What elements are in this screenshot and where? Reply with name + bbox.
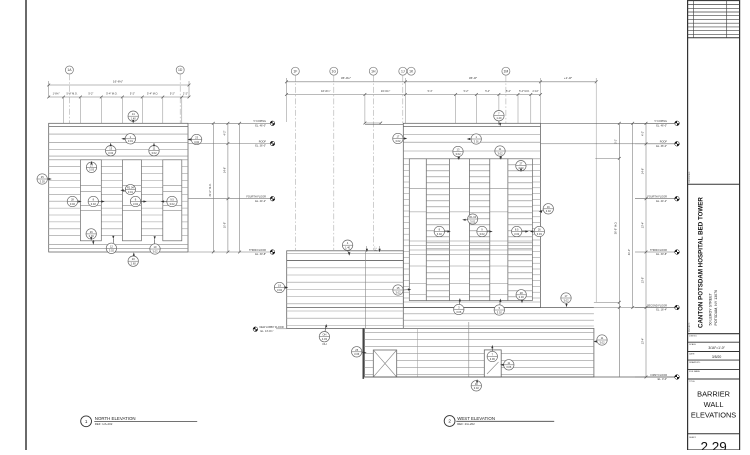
svg-text:1H: 1H: [371, 69, 376, 73]
svg-text:1: 1: [85, 419, 88, 424]
north bottom band lines: [49, 245, 188, 249]
svg-text:3.02: 3.02: [395, 139, 401, 143]
svg-text:ROOF: ROOF: [259, 140, 267, 143]
svg-text:OH: OH: [322, 342, 326, 346]
svg-text:3′-2″: 3′-2″: [615, 139, 618, 144]
title block outline: [688, 0, 740, 450]
north level marker T/ COPING: [189, 120, 275, 127]
north sub dimension chain: [47, 92, 190, 123]
svg-text:R1.04: R1.04: [127, 186, 134, 190]
callout 11/3.02 in blank strip: [594, 335, 608, 345]
svg-text:3/16″=1′-0″: 3/16″=1′-0″: [708, 346, 725, 350]
grid bubble 1G (west elev): [330, 67, 338, 250]
svg-text:4.03: 4.03: [322, 337, 328, 341]
svg-text:2′-10″: 2′-10″: [533, 90, 539, 93]
west window column 5: [490, 159, 508, 301]
callout 28/3.03 west inside low: [516, 290, 526, 304]
callout 4/1.40 wing top: [342, 240, 352, 256]
west window column 1: [409, 159, 426, 301]
west tower outline and coping: [403, 123, 540, 307]
west wing wall with siding: [287, 251, 404, 329]
west siding joint: [418, 322, 469, 377]
svg-text:4′-2″: 4′-2″: [223, 130, 226, 135]
north overall dimension 16'-6 1/2": [47, 80, 190, 97]
svg-text:FILE NAME:: FILE NAME:: [689, 370, 701, 373]
svg-text:10′-8″: 10′-8″: [223, 222, 226, 228]
svg-text:2: 2: [448, 419, 451, 424]
west tower margin siding: [403, 165, 540, 298]
svg-text:R1.04: R1.04: [469, 215, 476, 219]
callout 25/3.06 near jamb: [352, 347, 367, 357]
svg-text:REF: 2/A-202: REF: 2/A-202: [457, 422, 475, 426]
north level marker THIRD FLOOR: [189, 249, 275, 256]
north wall outline and coping: [49, 123, 188, 252]
west spandrel cluster lines: [409, 241, 532, 255]
svg-text:41′-0″: 41′-0″: [628, 249, 631, 255]
svg-text:5′-2″: 5′-2″: [464, 90, 469, 93]
svg-text:3.01: 3.01: [474, 139, 480, 143]
callout 18/3.04 west wing oh: [319, 324, 329, 346]
callout R1.04 west: [462, 214, 478, 224]
sheet title BARRIER WALL ELEVATIONS: [688, 381, 740, 434]
west right step lines: [594, 82, 621, 377]
west level marker FOURTH FLOOR: [635, 196, 679, 203]
svg-text:3.02: 3.02: [277, 288, 283, 292]
callout 11/3.06 door2 right: [500, 360, 514, 370]
svg-text:3.02: 3.02: [151, 151, 157, 155]
svg-text:NORTH ELEVATION: NORTH ELEVATION: [95, 416, 136, 421]
west sub dimension chain: [285, 89, 542, 96]
svg-text:1A: 1A: [67, 68, 72, 72]
svg-text:3.02: 3.02: [497, 310, 503, 314]
svg-text:1.40: 1.40: [496, 116, 502, 120]
svg-text:3.06: 3.06: [490, 357, 496, 361]
west overall dimension line: [285, 76, 597, 94]
svg-text:13′-4″: 13′-4″: [642, 222, 645, 228]
svg-text:CANTON POTSDAM HOSPITAL BED TO: CANTON POTSDAM HOSPITAL BED TOWER: [698, 197, 705, 328]
svg-text:EL. 30′-8″: EL. 30′-8″: [656, 253, 667, 256]
svg-text:1F: 1F: [293, 69, 297, 73]
callout 8/3.02 mid row b: [88, 196, 105, 206]
svg-text:5′-2″: 5′-2″: [88, 92, 93, 95]
wing corner dimension: [366, 246, 381, 252]
callout 1/3.01 west band: [467, 134, 482, 144]
west door 2: [484, 350, 501, 377]
svg-text:1.40: 1.40: [131, 117, 137, 121]
west elevation title: [444, 416, 554, 427]
svg-text:3/5/20: 3/5/20: [712, 355, 722, 359]
svg-text:EL. 13′-0¾″: EL. 13′-0¾″: [261, 330, 274, 333]
svg-text:FOURTH FLOOR: FOURTH FLOOR: [647, 196, 667, 199]
svg-text:3.02: 3.02: [152, 249, 158, 253]
svg-text:5′-4″: 5′-4″: [428, 90, 433, 93]
svg-text:3.06: 3.06: [456, 310, 462, 314]
svg-text:BARRIER: BARRIER: [697, 389, 730, 398]
revision table: [688, 0, 740, 38]
svg-text:T/ COPING: T/ COPING: [654, 120, 667, 123]
svg-text:FIRST FLOOR: FIRST FLOOR: [651, 374, 668, 377]
svg-text:36′-0⁄″: 36′-0⁄″: [469, 76, 477, 80]
svg-text:1′-8¾″: 1′-8¾″: [53, 92, 60, 95]
title block info rows: [688, 334, 740, 379]
svg-text:14′-6″: 14′-6″: [642, 168, 645, 174]
west level dim chain: [642, 122, 648, 379]
svg-text:3.01: 3.01: [470, 219, 476, 223]
west coping extension: [541, 123, 676, 158]
callout 8/3.02 west mid a: [434, 226, 451, 236]
west tower bottom band: [403, 301, 540, 303]
grid bubble 1K (west elev): [407, 67, 415, 75]
svg-text:REF: 1/A-202: REF: 1/A-202: [95, 422, 113, 426]
svg-text:5′-2″: 5′-2″: [130, 92, 135, 95]
grid bubble 1J (west elev): [399, 67, 407, 123]
callout 26/3.03 strip1 bottom: [86, 229, 96, 241]
west first floor line: [365, 376, 676, 378]
north window strip 2: [122, 160, 141, 241]
callout 9/3.02 mid row c: [130, 196, 147, 206]
callout 17/3.02 left of west tower: [393, 133, 408, 143]
north elevation title: [81, 416, 198, 427]
callout 20/2.60 below north wall: [128, 252, 138, 266]
svg-text:3.06: 3.06: [354, 352, 360, 356]
callout 9.5/3.02 mid row d: [161, 196, 178, 206]
svg-text:3.03: 3.03: [537, 232, 543, 236]
svg-text:THIRD FLOOR: THIRD FLOOR: [249, 249, 266, 252]
svg-text:3.02: 3.02: [70, 202, 76, 206]
grid bubble 1M (west elev): [502, 67, 510, 123]
callout 7/1.40 west parapet: [494, 111, 504, 127]
callout 14/1.40 north parapet: [128, 111, 138, 123]
callout 13/3.02 west band a: [453, 146, 463, 160]
callout 13/3.02 north band left: [106, 143, 116, 156]
svg-text:3.02: 3.02: [169, 202, 175, 206]
callout 3/3.06 below second floor a: [454, 298, 464, 315]
callout 16/3.02 right of west tower: [539, 204, 554, 214]
svg-text:50 LEROY STREET: 50 LEROY STREET: [709, 292, 713, 325]
callout 19/3.02 wing left: [274, 282, 288, 292]
svg-text:4′-2″: 4′-2″: [642, 131, 645, 136]
west level marker SECOND FLOOR: [635, 304, 679, 311]
svg-text:3.01: 3.01: [128, 139, 134, 143]
svg-text:DATE:: DATE:: [689, 352, 695, 355]
north level dim chain: [223, 122, 229, 254]
svg-text:EL. 36′-0″: EL. 36′-0″: [255, 145, 266, 148]
svg-text:EL. 46′-0″: EL. 46′-0″: [656, 125, 667, 128]
callout 26/3.03 west mid d: [530, 226, 545, 236]
svg-text:PROJECT:: PROJECT:: [689, 322, 691, 332]
svg-text:THIRD FLOOR: THIRD FLOOR: [650, 249, 667, 252]
svg-text:FOURTH FLOOR: FOURTH FLOOR: [246, 196, 266, 199]
svg-text:2.29: 2.29: [700, 440, 726, 451]
svg-text:EL. 46′-0″: EL. 46′-0″: [255, 125, 266, 128]
svg-text:14′-6″: 14′-6″: [223, 167, 226, 173]
west bottom band left jamb: [362, 328, 364, 379]
svg-text:5′-4″ M.O.: 5′-4″ M.O.: [66, 92, 77, 95]
svg-text:3.02: 3.02: [599, 340, 605, 344]
west window column 4: [469, 159, 489, 301]
svg-text:1G: 1G: [332, 69, 337, 73]
callout 15/3.02 west tower low: [393, 285, 412, 295]
svg-text:3.02: 3.02: [455, 152, 461, 156]
svg-text:SHEET:: SHEET:: [689, 437, 696, 439]
svg-text:36′-8″ M.O.: 36′-8″ M.O.: [614, 221, 617, 234]
svg-text:3.06: 3.06: [506, 365, 512, 369]
svg-text:2.60: 2.60: [131, 262, 137, 266]
svg-text:ROOF: ROOF: [660, 141, 668, 144]
svg-text:8.5: 8.5: [515, 228, 519, 232]
west level marker T/ COPING: [635, 120, 679, 127]
north level marker FOURTH FLOOR: [189, 196, 275, 203]
svg-text:13′-4″: 13′-4″: [642, 338, 645, 344]
svg-text:EL. 0′-0″: EL. 0′-0″: [658, 378, 668, 381]
svg-text:1K: 1K: [409, 69, 414, 73]
svg-text:1D: 1D: [178, 68, 183, 72]
north upper siding lines: [49, 134, 188, 160]
callout 9/3.02 west mid b: [477, 226, 493, 236]
west window column 2: [426, 159, 449, 301]
svg-text:16′-6¾″: 16′-6¾″: [321, 89, 330, 93]
svg-text:ELEVATIONS: ELEVATIONS: [691, 410, 736, 419]
grid bubble 1A (north elev): [65, 66, 73, 123]
svg-text:EL. 36′-0″: EL. 36′-0″: [656, 145, 667, 148]
svg-text:5′-4″ M.O.: 5′-4″ M.O.: [519, 90, 530, 93]
svg-text:EL. 16′-4″: EL. 16′-4″: [656, 309, 667, 312]
svg-text:3.03: 3.03: [519, 295, 525, 299]
callout 7/3.06 door2 top: [487, 345, 497, 362]
north overall height dim: [209, 122, 215, 254]
svg-text:31′-0⁄″ M.O.: 31′-0⁄″ M.O.: [209, 183, 212, 196]
svg-text:+1′-0⁄″: +1′-0⁄″: [564, 76, 572, 80]
svg-text:WEST ELEVATION: WEST ELEVATION: [457, 416, 495, 421]
leader arrow north top band: [92, 240, 94, 245]
north second dim column: [238, 122, 241, 254]
west tower upper siding: [403, 135, 540, 159]
svg-text:DRAWN BY:: DRAWN BY:: [689, 361, 701, 364]
svg-text:WALL: WALL: [704, 400, 724, 409]
grid bubble 1D (north elev): [176, 66, 184, 123]
svg-text:3.02: 3.02: [108, 151, 114, 155]
callout 28/3.02 mid row a: [67, 196, 82, 206]
callout 1/3.01 north band: [121, 134, 135, 144]
north window strip 1: [80, 160, 101, 241]
west setback coping line: [364, 122, 404, 125]
svg-text:OH: OH: [322, 333, 326, 337]
west level marker THIRD FLOOR: [635, 249, 679, 256]
svg-text:EL. 44′-2″: EL. 44′-2″: [255, 200, 266, 203]
callout R1.04 north: [120, 184, 135, 194]
west dim col B: [628, 122, 634, 309]
svg-text:3.02: 3.02: [437, 232, 443, 236]
svg-text:TITLE:: TITLE:: [689, 381, 695, 383]
svg-text:3.02: 3.02: [91, 202, 97, 206]
callout 10/3.02 north bottom b: [150, 236, 160, 254]
callout 11/3.02 north band right: [149, 143, 159, 156]
callout 12/3.02 north bottom a: [106, 236, 116, 254]
sheet number 2.29: [689, 437, 727, 455]
svg-text:3.02: 3.02: [194, 140, 200, 144]
west dim extension lines: [287, 95, 541, 124]
svg-text:5′-4″: 5′-4″: [485, 90, 490, 93]
callout 30/3.02 below first floor: [471, 379, 481, 391]
svg-text:1.40: 1.40: [345, 246, 351, 250]
svg-text:3.03: 3.03: [40, 179, 46, 183]
callout 25/3.03 left of north wall: [37, 174, 52, 184]
west window column 6: [508, 159, 533, 301]
svg-text:3.02: 3.02: [474, 386, 480, 390]
svg-text:3.02: 3.02: [563, 298, 569, 302]
callout 8.5/3.02 west mid c: [512, 226, 529, 236]
west wing corner joint: [365, 251, 367, 329]
callout 27/3.03 west strip top: [516, 161, 526, 173]
svg-text:5′-4″ M.O.: 5′-4″ M.O.: [147, 92, 158, 95]
svg-text:3.02: 3.02: [479, 232, 485, 236]
svg-text:3.02: 3.02: [497, 151, 503, 155]
svg-text:EL. 44′-2″: EL. 44′-2″: [656, 200, 667, 203]
svg-text:POTSDAM, NY 13076: POTSDAM, NY 13076: [714, 290, 718, 326]
callout 27/3.03 strip1 top: [86, 161, 96, 173]
west bottom band siding: [365, 314, 594, 377]
svg-text:2′-1″: 2′-1″: [376, 247, 378, 252]
svg-text:36′-0¼″: 36′-0¼″: [341, 76, 351, 80]
west door 1 (x-braced): [373, 350, 396, 377]
svg-text:5′-2″: 5′-2″: [506, 90, 511, 93]
north window strip 3: [163, 160, 182, 241]
west window column 3: [449, 159, 469, 301]
west roof extension: [541, 143, 636, 145]
callout 17/3.02 right of band: [561, 293, 571, 308]
svg-text:16′-6½″: 16′-6½″: [113, 80, 123, 84]
level marker NEW LOBBY FLOOR: [253, 326, 287, 333]
svg-text:3.02: 3.02: [395, 290, 401, 294]
stamp area divider: [688, 171, 740, 184]
svg-text:1J: 1J: [401, 69, 405, 73]
west level marker FIRST FLOOR: [635, 374, 679, 381]
west dim col A: [614, 122, 620, 377]
svg-text:1M: 1M: [504, 69, 509, 73]
svg-text:3.03: 3.03: [89, 168, 95, 172]
west second floor line: [287, 307, 676, 309]
project name block: [689, 197, 718, 332]
svg-text:5′-4″ M.O.: 5′-4″ M.O.: [106, 92, 117, 95]
svg-text:3.02: 3.02: [133, 202, 139, 206]
callout 5/3.02 below second floor b: [494, 299, 504, 316]
svg-text:3.02: 3.02: [109, 249, 115, 253]
svg-text:EL. 30′-8″: EL. 30′-8″: [255, 253, 266, 256]
svg-text:3.02: 3.02: [514, 232, 520, 236]
west level marker ROOF: [635, 141, 679, 148]
sheet left edge line: [25, 0, 27, 450]
grid bubble 1H (west elev): [369, 67, 377, 250]
svg-text:T/ COPING: T/ COPING: [253, 120, 266, 123]
svg-text:5′-2″: 5′-2″: [170, 92, 175, 95]
svg-text:SECOND FLOOR: SECOND FLOOR: [647, 304, 667, 307]
svg-text:9.5: 9.5: [170, 198, 174, 202]
svg-text:16′-6¾″: 16′-6¾″: [381, 89, 390, 93]
north siding between strips: [49, 167, 188, 236]
north level marker ROOF: [189, 140, 275, 147]
svg-text:3.02: 3.02: [546, 209, 552, 213]
callout 23/3.02 right of north wall: [188, 134, 202, 144]
callout 11/3.02 west band b: [495, 146, 505, 160]
svg-text:13′-8″: 13′-8″: [642, 277, 645, 283]
svg-text:JOB NO.: JOB NO.: [689, 336, 697, 338]
svg-text:3.01: 3.01: [128, 190, 134, 194]
svg-text:SCALE:: SCALE:: [689, 343, 697, 346]
svg-text:REVISIONS: REVISIONS: [689, 171, 691, 183]
grid bubble 1F (west elev): [291, 67, 299, 250]
svg-text:2′-2″: 2′-2″: [183, 92, 188, 95]
